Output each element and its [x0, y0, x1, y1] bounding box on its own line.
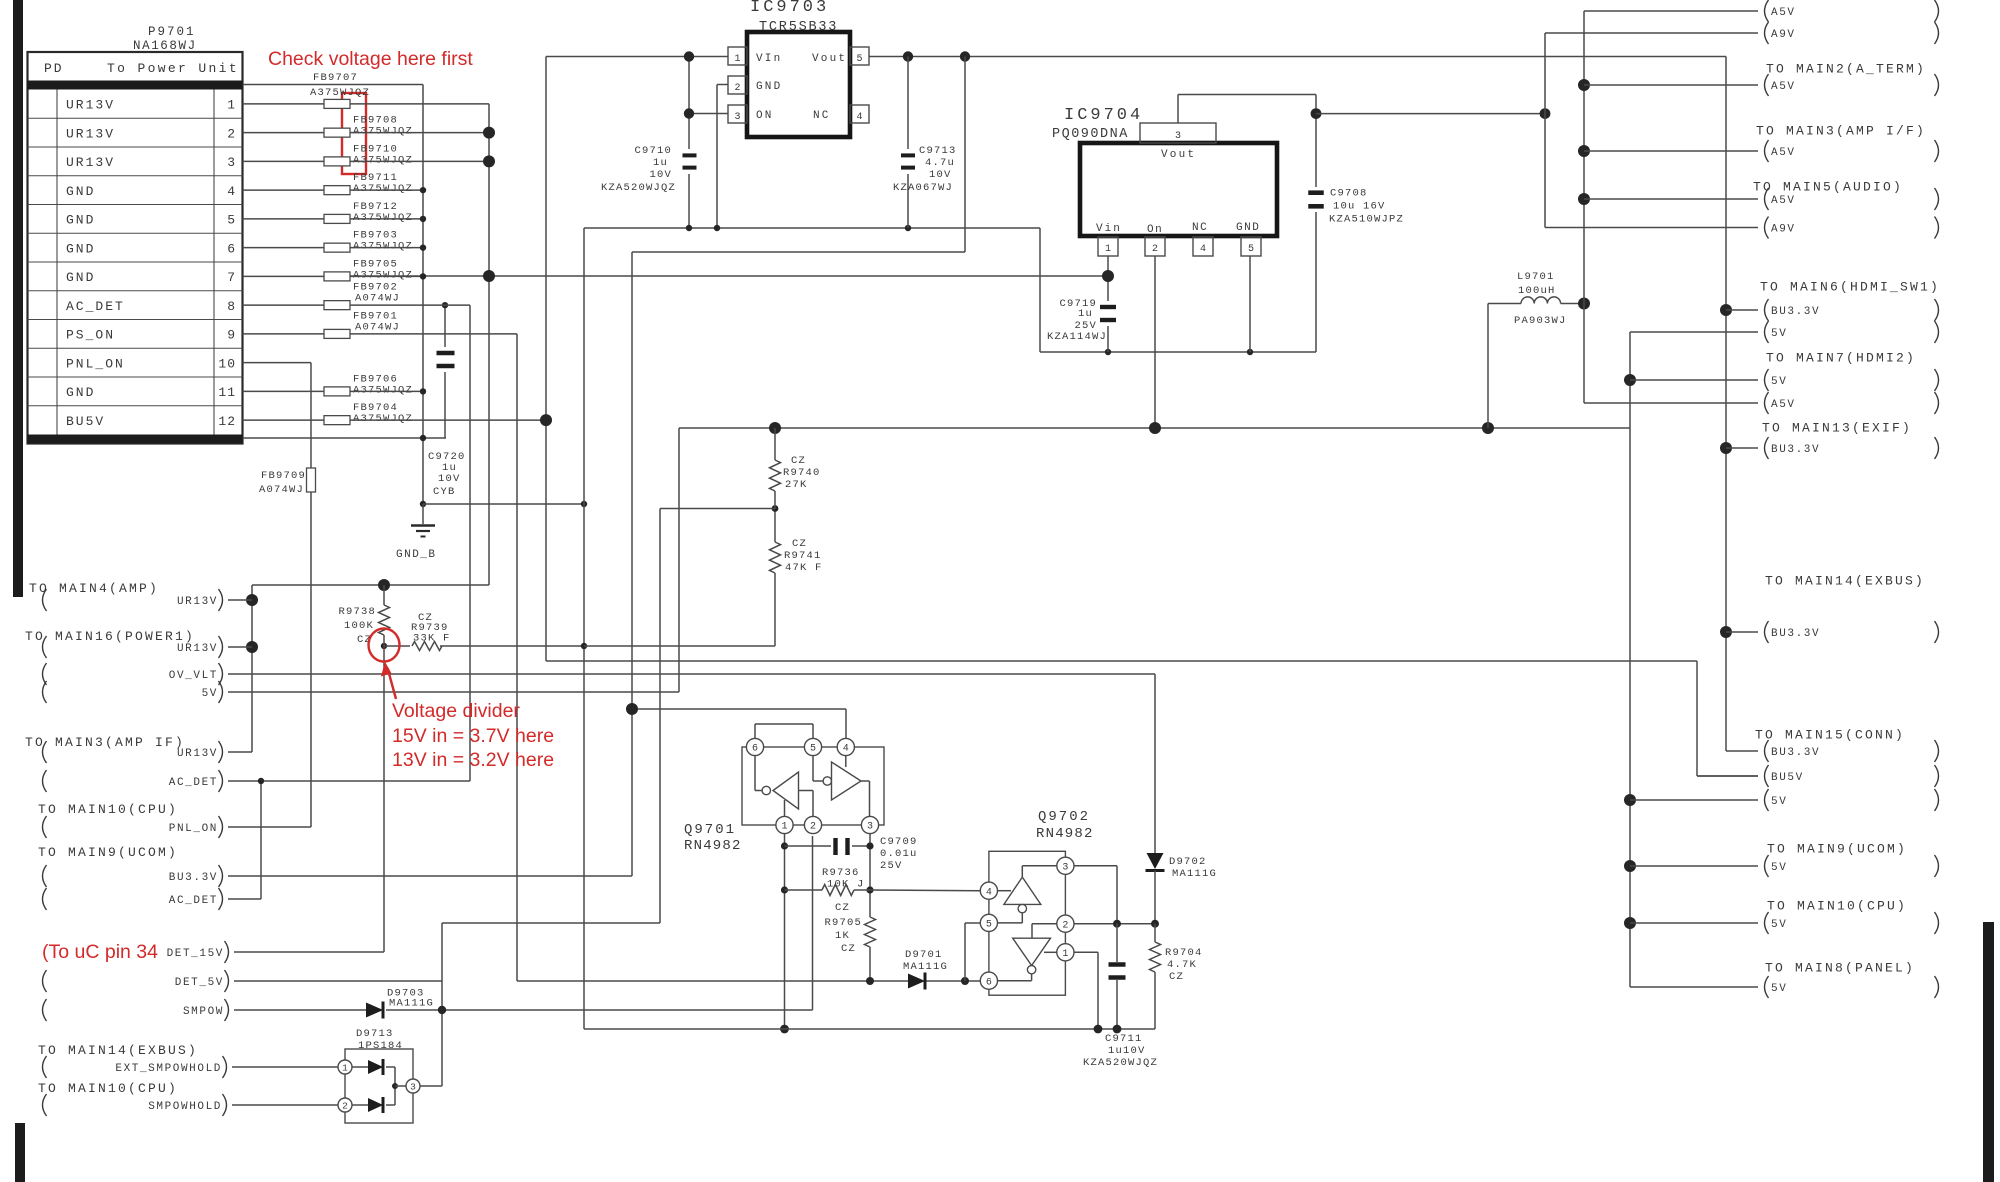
- svg-text:To Power Unit: To Power Unit: [107, 61, 239, 76]
- node 5V stub MAIN16: [43, 681, 223, 703]
- node 5V stub MAIN10: [1630, 912, 1939, 934]
- svg-text:3: 3: [734, 112, 740, 123]
- capacitor C9713: [893, 57, 957, 229]
- svg-text:6: 6: [752, 744, 758, 755]
- svg-text:FB9707: FB9707: [313, 72, 358, 84]
- svg-text:5: 5: [227, 213, 236, 228]
- svg-text:PA903WJ: PA903WJ: [1514, 315, 1567, 327]
- svg-text:TO MAIN5(AUDIO): TO MAIN5(AUDIO): [1753, 180, 1903, 195]
- svg-text:47K F: 47K F: [785, 562, 823, 574]
- svg-text:Check voltage here first: Check voltage here first: [268, 48, 473, 70]
- wire 5V vertical x1630: [1629, 332, 1631, 987]
- ferrite bead FB9704: [324, 402, 413, 425]
- wire BU3.3V down-left path: [228, 57, 965, 877]
- svg-text:NC: NC: [813, 110, 831, 122]
- svg-text:6: 6: [986, 977, 992, 988]
- svg-text:12: 12: [218, 414, 236, 429]
- node 5V stub MAIN7: [1630, 369, 1939, 391]
- junction dot A5V feed: [1578, 298, 1590, 310]
- label TO MAIN10(CPU) left: [38, 802, 178, 817]
- svg-text:3: 3: [867, 822, 873, 833]
- label TO MAIN2(A_TERM): [1766, 62, 1926, 77]
- label TO MAIN9(UCOM) right: [1767, 842, 1907, 857]
- capacitor C9711: [1083, 924, 1158, 1069]
- ferrite bead FB9705: [324, 258, 413, 281]
- svg-text:A9V: A9V: [1771, 29, 1796, 41]
- node A5V stub MAIN3: [1584, 140, 1939, 162]
- svg-text:4: 4: [856, 112, 862, 123]
- wire BU3.3V vertical x1726: [1725, 57, 1727, 752]
- svg-text:SMPOWHOLD: SMPOWHOLD: [148, 1101, 222, 1113]
- node AC_DET stub MAIN9: [43, 888, 223, 910]
- node DET_5V stub: [43, 970, 443, 992]
- wire GND main vertical x584: [583, 228, 585, 1028]
- svg-text:A5V: A5V: [1771, 399, 1796, 411]
- wire Q9702 pin1 out: [1074, 952, 1098, 1029]
- wire IC9704 Vout pin3 riser: [1178, 95, 1316, 124]
- svg-text:A375WJQZ: A375WJQZ: [353, 154, 413, 166]
- svg-text:PD: PD: [44, 61, 64, 76]
- svg-text:1: 1: [227, 98, 236, 113]
- svg-text:Voltage divider: Voltage divider: [392, 700, 520, 722]
- capacitor C9720: [428, 353, 466, 498]
- wire D9702 to node: [1154, 871, 1156, 924]
- op-amp regulator IC9704: [1052, 106, 1277, 256]
- svg-text:TO MAIN2(A_TERM): TO MAIN2(A_TERM): [1766, 62, 1926, 77]
- node A5V stub MAIN5: [1584, 188, 1939, 210]
- label TO MAIN3(AMP I/F): [1756, 124, 1926, 139]
- node UR13V stub MAIN16: [43, 636, 253, 658]
- red annotation rectangle: [342, 93, 366, 174]
- node EXT_SMPOWHOLD stub: [43, 1056, 339, 1078]
- svg-text:1u: 1u: [653, 157, 668, 169]
- svg-text:A375WJQZ: A375WJQZ: [353, 183, 413, 195]
- node A9V stub top: [1545, 22, 1939, 44]
- svg-text:BU3.3V: BU3.3V: [1771, 444, 1820, 456]
- svg-text:CZ: CZ: [835, 902, 850, 914]
- node A5V stub MAIN7: [1584, 392, 1939, 414]
- svg-text:PQ090DNA: PQ090DNA: [1052, 127, 1129, 142]
- svg-text:On: On: [1147, 224, 1163, 236]
- node UR13V stub MAIN3: [43, 741, 253, 763]
- wire R9741 top: [774, 509, 776, 542]
- wire GND_B branch: [423, 504, 584, 524]
- svg-text:TO MAIN16(POWER1): TO MAIN16(POWER1): [25, 629, 195, 644]
- resistor R9741: [770, 538, 823, 574]
- svg-text:DET_15V: DET_15V: [167, 948, 224, 960]
- svg-text:GND: GND: [66, 270, 95, 285]
- node A5V stub top: [1584, 0, 1939, 22]
- node UR13V stub MAIN4: [43, 589, 253, 611]
- wire D9713 pin3 riser: [420, 1085, 442, 1087]
- svg-text:MA111G: MA111G: [1172, 868, 1217, 880]
- svg-text:C9708: C9708: [1330, 188, 1368, 200]
- svg-text:A5V: A5V: [1771, 7, 1796, 19]
- ferrite bead FB9711: [324, 172, 413, 195]
- svg-text:10K J: 10K J: [827, 879, 865, 891]
- wire Q9702 pin2 out: [1074, 923, 1155, 925]
- svg-text:2: 2: [810, 822, 816, 833]
- svg-text:Q9701: Q9701: [684, 822, 736, 838]
- frame border bar left-top: [13, 0, 23, 597]
- svg-text:D9702: D9702: [1169, 856, 1207, 868]
- svg-text:IC9703: IC9703: [750, 0, 829, 17]
- svg-text:A375WJQZ: A375WJQZ: [353, 384, 413, 396]
- svg-text:5V: 5V: [1771, 328, 1787, 340]
- svg-text:1: 1: [781, 822, 787, 833]
- svg-text:4.7u: 4.7u: [925, 157, 955, 169]
- ferrite bead FB9706: [324, 373, 413, 396]
- svg-text:R9738: R9738: [338, 606, 376, 618]
- svg-text:2: 2: [1062, 920, 1068, 931]
- svg-text:2: 2: [734, 83, 740, 94]
- svg-text:2: 2: [1152, 244, 1158, 255]
- svg-text:3: 3: [1062, 862, 1068, 873]
- svg-text:5V: 5V: [1771, 376, 1787, 388]
- svg-text:TCR5SB33: TCR5SB33: [759, 20, 838, 35]
- junction dot BU3.3V x632: [626, 703, 638, 715]
- svg-text:OV_VLT: OV_VLT: [169, 670, 218, 682]
- svg-text:A375WJQZ: A375WJQZ: [353, 413, 413, 425]
- junction dots GND y352: [1105, 349, 1253, 355]
- svg-text:5: 5: [986, 920, 992, 931]
- svg-text:5V: 5V: [1771, 919, 1787, 931]
- wire IC9703 ON tie: [689, 57, 728, 229]
- svg-text:VIn: VIn: [756, 53, 782, 65]
- svg-text:25V: 25V: [880, 860, 903, 872]
- junction dot GND_B line: [581, 501, 587, 507]
- transistor array Q9701: [684, 724, 884, 854]
- svg-text:GND: GND: [1236, 222, 1260, 234]
- red annotation "(To uC pin 34": [42, 941, 158, 963]
- svg-text:R9741: R9741: [784, 550, 822, 562]
- svg-text:FB9709: FB9709: [261, 470, 306, 482]
- inductor L9701: [1514, 271, 1584, 327]
- red annotation "15V in = 3.7V here": [392, 725, 554, 747]
- label TO MAIN10(CPU) left2: [38, 1081, 178, 1096]
- connector P9701 table: [28, 25, 243, 444]
- svg-text:CYB: CYB: [433, 486, 456, 498]
- dual diode D9713: [338, 1028, 420, 1123]
- svg-text:TO MAIN9(UCOM): TO MAIN9(UCOM): [1767, 842, 1907, 857]
- resistor R9740: [770, 428, 821, 509]
- junction dots Vout line: [903, 51, 970, 61]
- svg-text:Vout: Vout: [1161, 149, 1196, 161]
- svg-text:13V in = 3.2V here: 13V in = 3.2V here: [392, 749, 554, 771]
- svg-text:A375WJQZ: A375WJQZ: [353, 212, 413, 224]
- svg-text:5V: 5V: [202, 688, 218, 700]
- frame border bar left-bottom: [15, 1123, 25, 1182]
- svg-text:ON: ON: [756, 110, 774, 122]
- svg-text:AC_DET: AC_DET: [169, 777, 218, 789]
- svg-text:RN4982: RN4982: [1036, 826, 1094, 842]
- node BU3.3V stub left: [43, 865, 223, 887]
- transistor array Q9702: [980, 809, 1093, 995]
- svg-text:UR13V: UR13V: [66, 98, 115, 113]
- svg-text:A375WJQZ: A375WJQZ: [353, 241, 413, 253]
- wire Q9701 pin1 branch: [784, 834, 786, 1030]
- svg-text:RN4982: RN4982: [684, 838, 742, 854]
- junction dot A9V x1316: [1311, 108, 1322, 119]
- svg-text:CZ: CZ: [841, 943, 856, 955]
- svg-text:MA111G: MA111G: [389, 998, 434, 1010]
- svg-text:BU3.3V: BU3.3V: [1771, 306, 1820, 318]
- svg-text:UR13V: UR13V: [66, 155, 115, 170]
- svg-text:TO MAIN10(CPU): TO MAIN10(CPU): [38, 802, 178, 817]
- svg-text:15V in = 3.7V here: 15V in = 3.7V here: [392, 725, 554, 747]
- wire PNL_ON: [228, 363, 311, 827]
- svg-text:R9736: R9736: [822, 867, 860, 879]
- svg-text:A074WJ: A074WJ: [259, 484, 304, 496]
- wire OV_VLT: [228, 674, 1155, 853]
- label TO MAIN13(EXIF): [1762, 421, 1912, 436]
- label TO MAIN10(CPU) right: [1767, 899, 1907, 914]
- svg-text:MA111G: MA111G: [903, 961, 948, 973]
- svg-text:4.7K: 4.7K: [1167, 959, 1197, 971]
- wire UR13V row7-to-IC9704 horizontal: [350, 275, 1109, 277]
- svg-text:TO MAIN9(UCOM): TO MAIN9(UCOM): [38, 845, 178, 860]
- ferrite bead FB9703: [324, 230, 413, 253]
- op-amp regulator IC9703: [728, 0, 869, 137]
- svg-text:TO MAIN7(HDMI2): TO MAIN7(HDMI2): [1766, 351, 1916, 366]
- svg-text:GND_B: GND_B: [396, 549, 437, 561]
- svg-text:BU3.3V: BU3.3V: [1771, 628, 1820, 640]
- wire GND table bus: [243, 85, 447, 505]
- svg-text:NC: NC: [1192, 222, 1208, 234]
- svg-text:KZA510WJPZ: KZA510WJPZ: [1329, 214, 1404, 226]
- svg-text:10: 10: [218, 356, 236, 371]
- svg-text:6: 6: [227, 241, 236, 256]
- junction dot SMPOW: [438, 1006, 446, 1014]
- resistor R9705: [824, 917, 875, 981]
- svg-text:GND: GND: [66, 184, 95, 199]
- svg-text:BU3.3V: BU3.3V: [1771, 747, 1820, 759]
- wire PS_ON: [350, 334, 980, 981]
- svg-text:R9740: R9740: [783, 467, 821, 479]
- wire GND bottom rail: [584, 1028, 1155, 1029]
- svg-text:UR13V: UR13V: [177, 643, 218, 655]
- svg-text:SMPOW: SMPOW: [183, 1006, 224, 1018]
- ferrite bead FB9702: [324, 282, 400, 310]
- svg-text:4: 4: [843, 744, 849, 755]
- svg-text:AC_DET: AC_DET: [66, 299, 125, 314]
- node 5V stub MAIN9: [1630, 855, 1939, 877]
- diode D9701: [903, 949, 948, 990]
- junction dots GND rail y228: [686, 225, 911, 231]
- svg-text:TO MAIN10(CPU): TO MAIN10(CPU): [1767, 899, 1907, 914]
- svg-text:Vout: Vout: [812, 53, 847, 65]
- wire BU3.3V from IC9703 Vout: [869, 56, 1726, 58]
- svg-text:AC_DET: AC_DET: [169, 895, 218, 907]
- svg-text:A375WJQZ: A375WJQZ: [353, 126, 413, 138]
- svg-text:100uH: 100uH: [1518, 285, 1556, 297]
- label TO MAIN15(CONN): [1755, 728, 1905, 743]
- junction dots BU3.3V vertical: [1720, 304, 1732, 638]
- svg-text:3: 3: [227, 155, 236, 170]
- junction dot C9720 top: [442, 302, 448, 308]
- svg-text:TO MAIN10(CPU): TO MAIN10(CPU): [38, 1081, 178, 1096]
- svg-text:A074WJ: A074WJ: [355, 321, 400, 333]
- resistor R9736: [785, 867, 871, 914]
- wire BU5V: [350, 57, 1758, 777]
- svg-text:0.01u: 0.01u: [880, 848, 918, 860]
- svg-text:1u10V: 1u10V: [1108, 1045, 1146, 1057]
- red annotation arrow: [381, 662, 396, 699]
- svg-text:KZA520WJQZ: KZA520WJQZ: [1083, 1057, 1158, 1069]
- svg-text:EXT_SMPOWHOLD: EXT_SMPOWHOLD: [115, 1063, 222, 1075]
- svg-text:Vin: Vin: [1096, 223, 1122, 235]
- wire C9720 branch: [444, 305, 446, 438]
- svg-text:P9701: P9701: [148, 25, 196, 39]
- svg-text:1K: 1K: [835, 930, 850, 942]
- svg-text:1u: 1u: [1078, 308, 1093, 320]
- svg-text:TO MAIN13(EXIF): TO MAIN13(EXIF): [1762, 421, 1912, 436]
- svg-text:TO MAIN14(EXBUS): TO MAIN14(EXBUS): [1765, 574, 1925, 589]
- ground GND_B symbol: [396, 526, 437, 562]
- wire AC_DET: [228, 305, 470, 899]
- node SMPOW stub: [43, 999, 367, 1021]
- label TO MAIN6(HDMI_SW1): [1760, 280, 1940, 295]
- svg-text:R9705: R9705: [824, 917, 862, 929]
- wire IC9703 Vin: [546, 56, 728, 58]
- svg-text:C9709: C9709: [880, 836, 918, 848]
- svg-text:3: 3: [1175, 131, 1181, 142]
- svg-text:KZA114WJ: KZA114WJ: [1047, 331, 1107, 343]
- junction dot divider 5V mid: [772, 505, 779, 512]
- svg-text:A074WJ: A074WJ: [355, 293, 400, 305]
- svg-text:Q9702: Q9702: [1038, 809, 1090, 825]
- svg-text:TO MAIN14(EXBUS): TO MAIN14(EXBUS): [38, 1043, 198, 1058]
- ferrite bead FB9708: [324, 115, 413, 138]
- resistor R9739: [384, 612, 584, 651]
- wire SMPOW to Q9701 pin2: [386, 836, 813, 1010]
- junction dot IC9704 Vin: [1102, 270, 1114, 282]
- label TO MAIN7(HDMI2): [1766, 351, 1916, 366]
- svg-text:C9713: C9713: [919, 145, 957, 157]
- svg-text:1PS184: 1PS184: [358, 1040, 403, 1052]
- red annotation "Check voltage here first": [268, 48, 473, 70]
- junction dots GND table bus: [420, 187, 426, 507]
- wire Q9701 pin3 branch: [869, 834, 871, 918]
- wire C9709 link: [785, 845, 871, 847]
- svg-text:5V: 5V: [1771, 983, 1787, 995]
- svg-text:3: 3: [410, 1082, 416, 1093]
- junction dots IC9703 Vin/ON: [684, 51, 694, 118]
- svg-text:TO MAIN15(CONN): TO MAIN15(CONN): [1755, 728, 1905, 743]
- junction dots Q9701 pin3: [866, 842, 873, 893]
- resistor R9738: [338, 585, 389, 646]
- wire A9V vertical x1545: [1544, 33, 1546, 228]
- junction dots PS_ON line: [866, 977, 969, 985]
- svg-text:10V: 10V: [438, 473, 461, 485]
- node A5V stub MAIN2: [1584, 74, 1939, 96]
- node SMPOWHOLD stub: [43, 1094, 339, 1116]
- svg-text:TO MAIN3(AMP IF): TO MAIN3(AMP IF): [25, 735, 185, 750]
- frame border bar right-bottom: [1983, 922, 1994, 1182]
- svg-text:UR13V: UR13V: [177, 596, 218, 608]
- junction dot A9V x1545: [1540, 108, 1551, 119]
- svg-text:UR13V: UR13V: [66, 126, 115, 141]
- node BU3.3V stub MAIN15: [1726, 740, 1939, 762]
- junction dots A5V vertical: [1578, 79, 1590, 205]
- wire UR13V left feed: [252, 585, 489, 752]
- svg-text:4: 4: [1200, 244, 1206, 255]
- svg-text:2: 2: [342, 1101, 348, 1112]
- wire Q9702 pin5 link: [965, 923, 980, 981]
- svg-text:L9701: L9701: [1517, 271, 1555, 283]
- svg-text:5: 5: [810, 744, 816, 755]
- node OV_VLT stub: [43, 663, 223, 685]
- node A9V stub MAIN5: [1545, 217, 1939, 239]
- label TO MAIN9(UCOM) left: [38, 845, 178, 860]
- diode D9702: [1146, 853, 1218, 880]
- capacitor C9708: [1308, 188, 1404, 226]
- node 5V stub MAIN8: [1630, 976, 1939, 998]
- svg-text:GND: GND: [756, 81, 782, 93]
- node BU3.3V stub MAIN14: [1726, 621, 1939, 643]
- svg-text:1: 1: [1062, 949, 1068, 960]
- node 5V stub MAIN15: [1630, 789, 1939, 811]
- wire A5V vertical x1584: [1583, 11, 1585, 403]
- svg-text:1: 1: [342, 1063, 348, 1074]
- svg-text:IC9704: IC9704: [1064, 106, 1143, 125]
- svg-text:KZA520WJQZ: KZA520WJQZ: [601, 182, 676, 194]
- svg-text:TO MAIN4(AMP): TO MAIN4(AMP): [29, 581, 159, 596]
- svg-text:10V: 10V: [929, 169, 952, 181]
- svg-text:C9710: C9710: [634, 145, 672, 157]
- svg-text:C9711: C9711: [1105, 1033, 1143, 1045]
- svg-text:A9V: A9V: [1771, 224, 1796, 236]
- junction dots Q9701 pin1: [780, 842, 789, 1033]
- capacitor C9719: [1047, 298, 1116, 343]
- label TO MAIN4(AMP): [29, 581, 159, 596]
- ferrite bead FB9709: [259, 468, 316, 496]
- wire A9V feed: [1316, 113, 1545, 115]
- wire 5V rail y428: [228, 428, 1630, 692]
- wire IC9704 On pin: [1154, 256, 1156, 428]
- svg-text:BU3.3V: BU3.3V: [169, 872, 218, 884]
- svg-text:D9701: D9701: [905, 949, 943, 961]
- wires table rows to fuses: [243, 104, 325, 420]
- junction dots 5V vertical: [1624, 374, 1636, 929]
- label TO MAIN5(AUDIO): [1753, 180, 1903, 195]
- wire GND y646 to R9741: [584, 573, 775, 646]
- svg-text:PNL_ON: PNL_ON: [169, 823, 218, 835]
- wire DET_5V sense: [442, 509, 775, 1087]
- label TO MAIN8(PANEL): [1765, 961, 1915, 976]
- svg-text:PNL_ON: PNL_ON: [66, 356, 125, 371]
- svg-text:BU5V: BU5V: [66, 414, 105, 429]
- svg-text:5: 5: [1248, 244, 1254, 255]
- junction dots 5V rail: [769, 422, 1494, 434]
- svg-text:D9713: D9713: [356, 1028, 394, 1040]
- svg-text:GND: GND: [66, 213, 95, 228]
- node DET_15V stub: [167, 941, 384, 963]
- junction dots GND bottom rail: [1094, 1025, 1122, 1034]
- ferrite bead FB9707: [310, 72, 370, 108]
- wire UR13V bus vertical: [350, 104, 489, 585]
- node AC_DET stub MAIN3: [43, 770, 223, 792]
- svg-text:7: 7: [227, 270, 236, 285]
- svg-text:5V: 5V: [1771, 862, 1787, 874]
- svg-text:TO MAIN3(AMP I/F): TO MAIN3(AMP I/F): [1756, 124, 1926, 139]
- svg-text:33K F: 33K F: [413, 633, 451, 645]
- red annotation circle divider node: [369, 629, 400, 662]
- svg-text:A5V: A5V: [1771, 147, 1796, 159]
- svg-text:5V: 5V: [1771, 796, 1787, 808]
- ferrite bead FB9710: [324, 143, 413, 166]
- node PNL_ON stub: [43, 816, 223, 838]
